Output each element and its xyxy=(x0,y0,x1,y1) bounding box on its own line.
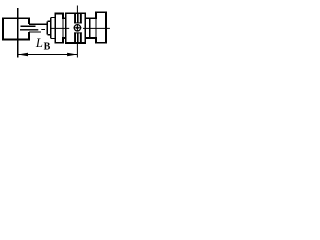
svg-text:B: B xyxy=(44,42,51,53)
svg-text:L: L xyxy=(35,36,43,50)
